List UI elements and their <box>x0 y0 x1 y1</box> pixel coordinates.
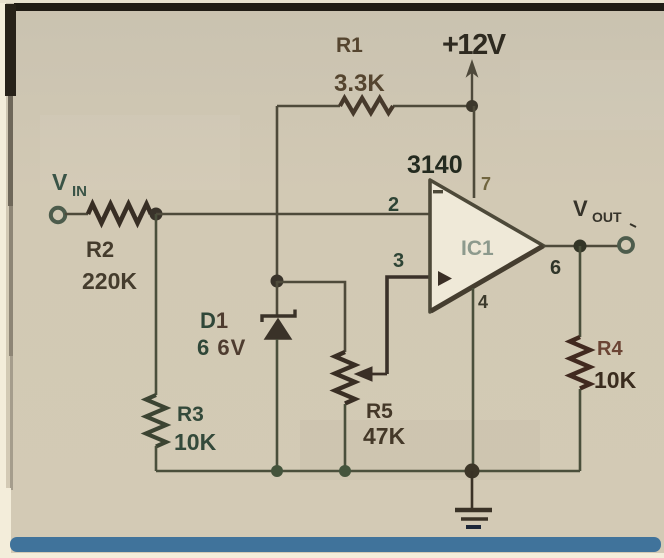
svg-text:D1: D1 <box>200 308 228 333</box>
terminal VOUT <box>619 238 633 252</box>
svg-text:10K: 10K <box>594 367 637 393</box>
svg-text:2: 2 <box>388 194 399 216</box>
svg-text:3.3K: 3.3K <box>334 70 385 97</box>
svg-text:6: 6 <box>550 257 561 279</box>
diode D1 zener <box>262 310 295 340</box>
wire pin2 line <box>156 213 430 216</box>
wiper arrow R5 <box>355 367 387 381</box>
wire R3 branch down <box>155 214 158 395</box>
wire pin7 drop <box>473 106 476 198</box>
junction dot D1 node <box>271 275 284 288</box>
wire R4 top leg <box>579 246 582 337</box>
svg-text:220K: 220K <box>82 268 137 294</box>
junction dot bus R5 <box>339 465 351 477</box>
label R2 value 220K <box>82 237 137 294</box>
svg-text:V: V <box>573 196 588 221</box>
resistor R1 <box>340 98 393 113</box>
resistor R3 <box>146 395 166 447</box>
wire wiper to pin3 <box>387 277 430 374</box>
svg-text:IN: IN <box>72 183 87 200</box>
ground <box>455 471 492 527</box>
svg-text:V: V <box>52 169 68 195</box>
junction dot VIN/R3 <box>150 208 163 221</box>
svg-text:47K: 47K <box>363 423 406 449</box>
wire D1 top leg <box>276 281 279 316</box>
wire R5 bottom leg <box>344 404 347 471</box>
terminal VIN <box>51 208 65 222</box>
wire VIN to R2 <box>65 213 88 216</box>
wire bottom bus <box>156 470 580 473</box>
svg-text:+12V: +12V <box>442 29 507 61</box>
svg-text:10K: 10K <box>174 429 217 455</box>
svg-text:OUT: OUT <box>592 209 622 225</box>
wire R3 bottom leg <box>155 446 158 471</box>
label D1 value 6.6V <box>197 308 246 360</box>
junction dot +12V/R1 <box>466 100 478 112</box>
wire D1 bottom leg <box>276 339 279 471</box>
node VOUT label <box>573 196 636 227</box>
junction dot output <box>574 240 587 253</box>
svg-text:3140: 3140 <box>407 151 463 179</box>
wire top rail left segment <box>277 105 340 108</box>
label R4 value 10K <box>594 338 637 393</box>
label R3 value 10K <box>174 403 217 455</box>
svg-text:3: 3 <box>393 250 404 272</box>
svg-text:R5: R5 <box>366 400 393 423</box>
label R5 value 47K <box>363 400 406 449</box>
resistor R5 potentiometer <box>335 352 355 404</box>
op-amp IC1 <box>430 180 544 312</box>
power +12V arrow terminal <box>467 61 477 106</box>
svg-text:4: 4 <box>478 292 488 312</box>
svg-text:6 6V: 6 6V <box>197 335 246 360</box>
svg-text:R2: R2 <box>86 237 114 262</box>
svg-text:R3: R3 <box>177 403 204 426</box>
wire pin4 drop <box>472 288 475 471</box>
junction dot bus D1 <box>271 465 283 477</box>
wire output <box>544 245 619 248</box>
node +12V label <box>442 29 507 61</box>
resistor R2 <box>88 204 151 223</box>
svg-text:R1: R1 <box>336 34 363 57</box>
node VIN label <box>52 169 87 200</box>
label R1 value 3.3K <box>334 34 385 97</box>
junction dot bus ground <box>465 464 480 479</box>
wire top rail right segment <box>393 105 472 108</box>
wire D1 node to R5 top <box>277 282 345 352</box>
svg-text:R4: R4 <box>597 338 623 360</box>
resistor R4 <box>570 337 590 389</box>
wire R4 bottom leg <box>579 389 582 471</box>
svg-text:IC1: IC1 <box>461 237 494 260</box>
svg-text:7: 7 <box>481 174 491 194</box>
wire R1 left leg down to D1 node <box>276 106 279 281</box>
